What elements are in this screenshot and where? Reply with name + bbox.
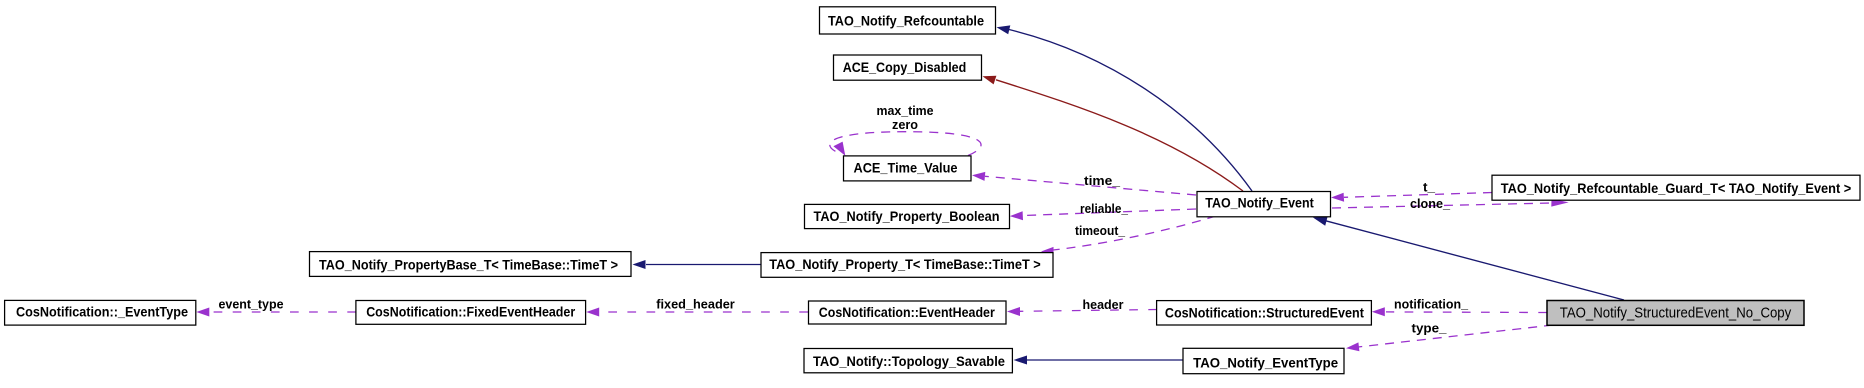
edge inheritance TAO_Notify_Property_T to TAO_Notify_PropertyBase_T bbox=[633, 260, 762, 269]
edge usage time_ from TAO_Notify_Event to ACE_Time_Value bbox=[972, 172, 1196, 195]
edge usage reliable_ from TAO_Notify_Event to TAO_Notify_Property_Boolean bbox=[1010, 209, 1196, 220]
node CosNotification::_EventType bbox=[5, 300, 196, 325]
svg-text:TAO_Notify_Property_Boolean: TAO_Notify_Property_Boolean bbox=[814, 209, 1000, 224]
svg-text:TAO_Notify_Event: TAO_Notify_Event bbox=[1205, 195, 1314, 210]
svg-text:reliable_: reliable_ bbox=[1080, 201, 1129, 216]
svg-text:zero: zero bbox=[892, 117, 918, 132]
node TAO_Notify::Topology_Savable bbox=[804, 349, 1012, 373]
node CosNotification::StructuredEvent bbox=[1157, 301, 1372, 325]
svg-text:fixed_header: fixed_header bbox=[656, 297, 735, 312]
svg-text:TAO_Notify_EventType: TAO_Notify_EventType bbox=[1193, 356, 1338, 371]
svg-text:t_: t_ bbox=[1423, 180, 1436, 195]
edge usage type_ from TAO_Notify_StructuredEvent_No_Copy to TAO_Notify_EventType bbox=[1346, 325, 1553, 351]
svg-text:ACE_Copy_Disabled: ACE_Copy_Disabled bbox=[843, 60, 967, 75]
node ACE_Copy_Disabled bbox=[834, 55, 982, 80]
edge usage t_ from TAO_Notify_Refcountable_Guard_T to TAO_Notify_Event bbox=[1331, 193, 1492, 202]
edge usage notification_ from TAO_Notify_StructuredEvent_No_Copy to CosNotification_StructuredEvent bbox=[1372, 307, 1547, 316]
svg-text:TAO_Notify_Refcountable: TAO_Notify_Refcountable bbox=[828, 13, 984, 28]
edge usage self-loop max_time zero on ACE_Time_Value bbox=[830, 132, 981, 156]
edge inheritance TAO_Notify_StructuredEvent_No_Copy to TAO_Notify_Event bbox=[1313, 216, 1624, 300]
edge inheritance TAO_Notify_Event to TAO_Notify_Refcountable bbox=[997, 25, 1253, 191]
svg-text:header: header bbox=[1083, 297, 1124, 312]
edge usage clone_ from TAO_Notify_Event to TAO_Notify_Refcountable_Guard_T bbox=[1332, 199, 1569, 208]
node CosNotification::FixedEventHeader bbox=[356, 301, 586, 325]
svg-text:CosNotification::FixedEventHea: CosNotification::FixedEventHeader bbox=[366, 305, 576, 320]
svg-text:TAO_Notify_StructuredEvent_No_: TAO_Notify_StructuredEvent_No_Copy bbox=[1560, 305, 1792, 322]
node CosNotification::EventHeader bbox=[809, 301, 1007, 324]
svg-text:event_type: event_type bbox=[219, 297, 284, 312]
edge usage timeout_ from TAO_Notify_Event to TAO_Notify_Property_T bbox=[1041, 216, 1216, 256]
edge usage header from CosNotification_StructuredEvent to CosNotification_EventHeader bbox=[1007, 307, 1157, 316]
node TAO_Notify_Event bbox=[1197, 192, 1331, 217]
node ACE_Time_Value bbox=[844, 156, 972, 181]
node TAO_Notify_Refcountable_Guard_T TAO_Notify_Event bbox=[1492, 175, 1860, 200]
svg-text:timeout_: timeout_ bbox=[1075, 223, 1126, 238]
svg-text:clone_: clone_ bbox=[1410, 196, 1451, 211]
svg-text:CosNotification::EventHeader: CosNotification::EventHeader bbox=[819, 305, 996, 320]
edge usage event_type from CosNotification_FixedEventHeader to CosNotification__EventType bbox=[196, 308, 356, 317]
edge inheritance TAO_Notify_EventType to TAO_Notify_Topology_Savable bbox=[1014, 356, 1184, 365]
svg-text:type_: type_ bbox=[1412, 321, 1448, 336]
node TAO_Notify_Refcountable bbox=[820, 7, 996, 34]
node TAO_Notify_StructuredEvent_No_Copy main bbox=[1547, 301, 1804, 326]
node TAO_Notify_Property_T TimeBase::TimeT bbox=[761, 253, 1053, 278]
edge inheritance TAO_Notify_Event to ACE_Copy_Disabled bbox=[983, 76, 1244, 191]
edge usage fixed_header from CosNotification_EventHeader to CosNotification_FixedEventHeader bbox=[586, 308, 808, 317]
svg-text:TAO_Notify_Property_T< TimeBas: TAO_Notify_Property_T< TimeBase::TimeT > bbox=[769, 257, 1041, 272]
svg-text:TAO_Notify_PropertyBase_T< Tim: TAO_Notify_PropertyBase_T< TimeBase::Tim… bbox=[319, 258, 618, 273]
node TAO_Notify_EventType bbox=[1183, 348, 1344, 373]
svg-text:CosNotification::_EventType: CosNotification::_EventType bbox=[16, 304, 188, 319]
node TAO_Notify_PropertyBase_T TimeBase::TimeT bbox=[310, 252, 632, 277]
node TAO_Notify_Property_Boolean bbox=[805, 204, 1010, 228]
svg-text:ACE_Time_Value: ACE_Time_Value bbox=[854, 160, 958, 175]
svg-text:CosNotification::StructuredEve: CosNotification::StructuredEvent bbox=[1165, 306, 1364, 321]
svg-text:max_time: max_time bbox=[877, 103, 934, 118]
svg-text:TAO_Notify_Refcountable_Guard_: TAO_Notify_Refcountable_Guard_T< TAO_Not… bbox=[1501, 181, 1852, 196]
svg-text:time_: time_ bbox=[1084, 173, 1121, 188]
svg-text:TAO_Notify::Topology_Savable: TAO_Notify::Topology_Savable bbox=[813, 354, 1005, 369]
svg-text:notification_: notification_ bbox=[1394, 296, 1469, 311]
